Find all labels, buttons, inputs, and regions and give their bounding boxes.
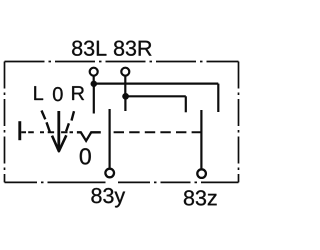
dashed lever position R — [66, 111, 74, 131]
label 0 (detent position) — [80, 148, 91, 164]
label 0 (centre position) — [53, 87, 63, 101]
lever arrow shaft (position 0) — [57, 111, 60, 148]
label 83y — [91, 188, 125, 208]
junction dot at 83R branch — [122, 93, 128, 99]
enclosure border bottom — [5, 181, 239, 183]
enclosure border left — [4, 62, 6, 183]
wire 83L circle to junction — [93, 76, 95, 84]
mechanical link dashed line (left of detent notch) — [21, 131, 73, 133]
lever stop T-bar — [18, 121, 21, 140]
detent notch V in link — [77, 132, 101, 141]
label R — [72, 86, 84, 100]
terminal circle 83L — [90, 68, 98, 76]
wire left contact finger below 83L junction — [93, 84, 95, 114]
wire contact finger below 83R junction — [124, 96, 126, 111]
label L — [34, 86, 43, 100]
dashed lever position L — [42, 111, 50, 133]
wire right contact finger from 83L rail — [217, 84, 219, 112]
lever arrow head — [52, 135, 66, 151]
enclosure border right — [238, 62, 240, 183]
junction dot at 83L branch — [91, 81, 97, 87]
label 83z — [184, 190, 217, 205]
terminal circle 83R — [121, 68, 129, 76]
enclosure border top — [5, 61, 239, 63]
wire movable contact to terminal 83y — [108, 109, 110, 169]
wire horizontal from 83R junction — [126, 95, 186, 97]
wire 83R circle down to junction — [124, 76, 126, 97]
terminal circle 83z — [197, 169, 206, 178]
mechanical link dashed line (right of detent notch) — [114, 131, 202, 133]
label 83L 83R — [72, 41, 151, 56]
wire horizontal from 83L junction — [94, 82, 219, 84]
terminal circle 83y — [105, 169, 114, 178]
wire movable contact to terminal 83z — [200, 110, 202, 169]
wire contact finger from 83R rail — [185, 96, 187, 112]
